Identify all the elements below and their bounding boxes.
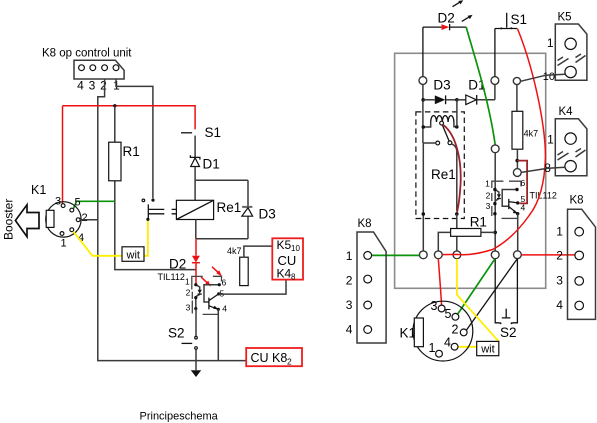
- svg-text:5: 5: [220, 288, 225, 298]
- svg-text:K5: K5: [277, 238, 292, 252]
- svg-text:2: 2: [346, 273, 353, 287]
- svg-text:D2: D2: [438, 11, 455, 26]
- svg-text:2: 2: [186, 287, 191, 297]
- svg-text:1: 1: [547, 133, 554, 147]
- svg-text:2: 2: [486, 191, 491, 201]
- svg-text:S1: S1: [511, 12, 528, 27]
- svg-text:3: 3: [186, 303, 191, 313]
- svg-text:K8: K8: [570, 195, 584, 207]
- svg-text:1: 1: [429, 341, 436, 355]
- svg-text:5: 5: [445, 307, 452, 321]
- svg-text:2: 2: [287, 357, 292, 367]
- svg-text:S2: S2: [168, 326, 185, 341]
- svg-text:8: 8: [291, 273, 296, 282]
- svg-text:5: 5: [75, 197, 81, 209]
- svg-text:3: 3: [55, 196, 61, 208]
- svg-text:1: 1: [556, 224, 563, 238]
- svg-text:TIL112: TIL112: [158, 272, 185, 282]
- svg-text:4: 4: [444, 336, 451, 350]
- svg-text:D3: D3: [433, 78, 450, 93]
- svg-text:wit: wit: [126, 250, 140, 262]
- svg-text:D1: D1: [203, 157, 220, 172]
- svg-text:R1: R1: [123, 144, 140, 159]
- svg-text:2: 2: [82, 212, 88, 224]
- svg-text:3: 3: [486, 201, 491, 211]
- svg-text:2: 2: [452, 323, 459, 337]
- svg-text:1: 1: [547, 36, 554, 50]
- svg-text:4k7: 4k7: [227, 246, 242, 256]
- svg-text:10: 10: [291, 244, 300, 253]
- svg-text:3: 3: [431, 299, 438, 313]
- svg-text:Re1: Re1: [217, 200, 242, 215]
- svg-text:R1: R1: [470, 214, 487, 229]
- svg-text:K5: K5: [558, 12, 572, 24]
- svg-text:4: 4: [521, 203, 526, 213]
- svg-text:K4: K4: [277, 267, 292, 281]
- svg-text:K8 op control unit: K8 op control unit: [42, 48, 132, 60]
- svg-text:3: 3: [89, 79, 96, 93]
- svg-text:K1: K1: [31, 183, 46, 197]
- svg-text:10: 10: [543, 71, 555, 83]
- svg-text:wit: wit: [480, 344, 494, 356]
- svg-text:D3: D3: [259, 207, 276, 222]
- svg-text:2: 2: [556, 248, 563, 262]
- svg-text:K8: K8: [358, 218, 372, 230]
- svg-text:4: 4: [77, 79, 84, 93]
- svg-text:Booster: Booster: [2, 199, 16, 240]
- svg-text:D2: D2: [169, 257, 186, 272]
- svg-text:4: 4: [346, 323, 353, 337]
- svg-text:3: 3: [556, 274, 563, 288]
- svg-text:Re1: Re1: [431, 167, 456, 182]
- svg-text:1: 1: [485, 179, 490, 189]
- svg-text:4: 4: [222, 303, 227, 313]
- svg-text:6: 6: [521, 178, 526, 188]
- svg-text:1: 1: [346, 249, 353, 263]
- svg-text:4: 4: [556, 298, 563, 312]
- svg-text:3: 3: [346, 298, 353, 312]
- svg-text:Principeschema: Principeschema: [140, 411, 219, 423]
- svg-text:TIL112: TIL112: [530, 191, 557, 201]
- svg-text:K4: K4: [559, 106, 574, 118]
- svg-text:4k7: 4k7: [524, 129, 539, 139]
- svg-text:S1: S1: [205, 125, 222, 140]
- svg-text:6: 6: [222, 278, 227, 288]
- svg-text:1: 1: [61, 238, 67, 250]
- svg-text:2: 2: [100, 79, 107, 93]
- svg-text:1: 1: [185, 277, 190, 287]
- svg-text:S2: S2: [500, 325, 517, 340]
- svg-text:CU K8: CU K8: [251, 351, 288, 365]
